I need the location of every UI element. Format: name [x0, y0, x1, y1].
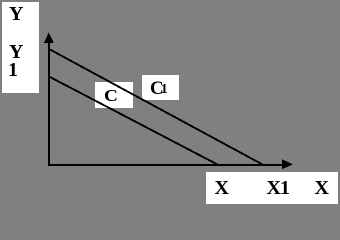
node C1 label — [150, 79, 164, 98]
wire budget line C1 — [49, 49, 263, 165]
node X label — [215, 178, 229, 198]
wire budget line C — [49, 77, 218, 166]
node Y1 label (1 part) — [8, 60, 18, 80]
node C1 label box — [142, 75, 179, 100]
wire Y-axis arrowhead — [44, 32, 54, 43]
node X (right) label — [315, 178, 329, 198]
wire Y-axis — [48, 40, 50, 166]
node X1 label — [267, 178, 289, 198]
node X-axis label box — [206, 172, 338, 205]
wire X-axis — [48, 164, 284, 166]
wire X-axis arrowhead — [282, 159, 293, 169]
node Y-axis label box — [2, 2, 39, 93]
node Y label — [9, 4, 23, 24]
node C label box — [95, 82, 133, 107]
node Y1 label (Y part) — [9, 42, 23, 62]
node C label — [104, 87, 118, 104]
